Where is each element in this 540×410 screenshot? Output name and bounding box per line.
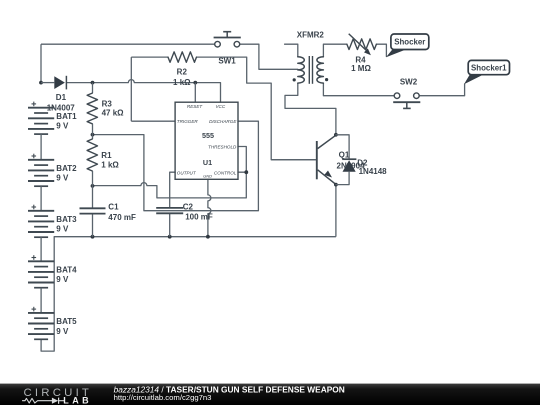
wire: SW2 right to Shocker1 flag	[419, 84, 464, 96]
svg-text:1 kΩ: 1 kΩ	[173, 78, 191, 87]
node C: RESET junction	[193, 81, 197, 85]
svg-text:BAT1: BAT1	[56, 112, 77, 121]
svg-text:555: 555	[202, 131, 214, 140]
capacitor C1	[80, 203, 136, 222]
wire: transformer secondary bottom to SW2	[323, 83, 394, 96]
wire: transformer primary top stub (unconnected)	[285, 44, 298, 57]
wire	[40, 288, 42, 313]
svg-text:XFMR2: XFMR2	[297, 31, 325, 40]
transistor Q1	[271, 135, 365, 184]
svg-text:D1: D1	[56, 93, 67, 102]
svg-text:TRIGGER: TRIGGER	[177, 119, 199, 124]
svg-text:R3: R3	[102, 100, 113, 109]
battery BAT3	[28, 205, 77, 238]
svg-text:100 mF: 100 mF	[185, 212, 213, 221]
svg-text:THRESHOLD: THRESHOLD	[208, 145, 237, 150]
svg-text:RESET: RESET	[187, 104, 204, 109]
svg-text:OUTPUT: OUTPUT	[177, 171, 197, 176]
battery BAT4	[28, 255, 77, 288]
node K: emitter junction	[334, 183, 338, 187]
wire: THRESHOLD loop to CONTROL	[238, 147, 246, 173]
wire: RESET pin stub	[194, 83, 196, 103]
wire: transformer primary bottom to Q1 collector	[285, 83, 336, 135]
wire: R2 right lead to Q1 base	[197, 57, 317, 160]
diode D2	[336, 135, 387, 185]
flag Shocker1	[464, 60, 510, 84]
wire: TRIGGER pin to R2 left	[131, 120, 175, 122]
node A: battery/diode junction	[39, 81, 43, 85]
svg-text:SW1: SW1	[218, 56, 236, 65]
svg-text:R1: R1	[101, 151, 112, 160]
IC U1 555 timer	[175, 102, 238, 179]
wire: battery+ node up to top rail	[40, 44, 42, 82]
wire: GND pin down to ground rail with two hops	[208, 179, 211, 236]
node D: R3/R1 junction	[91, 133, 95, 137]
svg-text:BAT3: BAT3	[56, 215, 77, 224]
svg-text:9 V: 9 V	[56, 174, 69, 183]
svg-text:BAT5: BAT5	[56, 317, 77, 326]
wire: SW1 right to transformer tap	[240, 44, 298, 69]
capacitor C2	[156, 203, 213, 222]
phase dot primary	[293, 78, 296, 81]
battery BAT5	[28, 307, 77, 340]
wire	[40, 134, 42, 160]
svg-text:GND: GND	[203, 173, 212, 178]
node J: collector junction	[334, 133, 338, 137]
svg-text:9 V: 9 V	[56, 327, 69, 336]
node I: GND rail junction	[206, 235, 210, 239]
svg-text:470 mF: 470 mF	[108, 213, 136, 222]
svg-text:C1: C1	[108, 203, 119, 212]
svg-text:Shocker1: Shocker1	[471, 63, 507, 72]
svg-text:BAT2: BAT2	[56, 164, 77, 173]
svg-text:Shocker: Shocker	[394, 38, 425, 47]
svg-text:LAB: LAB	[63, 396, 92, 406]
pushbutton switch SW1	[214, 32, 241, 66]
svg-text:SW2: SW2	[400, 78, 418, 87]
flag Shocker	[386, 34, 429, 57]
node G: C1 ground junction	[91, 235, 95, 239]
resistor R2	[168, 52, 197, 87]
svg-text:R2: R2	[177, 68, 188, 77]
CircuitLab logo	[23, 387, 93, 406]
variable resistor R4	[347, 34, 377, 73]
svg-text:U1: U1	[203, 158, 212, 167]
svg-text:1 kΩ: 1 kΩ	[101, 161, 119, 170]
transformer XFMR2	[293, 31, 329, 84]
svg-text:DISCHARGE: DISCHARGE	[209, 119, 237, 124]
battery BAT2	[28, 154, 77, 187]
resistor R3	[87, 83, 124, 135]
diode D1	[41, 76, 75, 113]
pushbutton switch SW2	[393, 78, 420, 109]
node B: R3 top junction	[91, 81, 95, 85]
wire: main rail D1 to VCC with hop over trigger wire	[66, 80, 220, 103]
wire	[40, 186, 42, 211]
wire: C1 top lead	[92, 186, 94, 209]
wire	[40, 237, 42, 261]
wire: secondary top to R4	[323, 44, 347, 57]
wire: C2 bottom lead	[169, 213, 171, 236]
node E: R1/C1 junction	[91, 184, 95, 188]
wire: R4 right lead to Shocker flag	[376, 44, 386, 56]
wire: OUTPUT pin down to C2	[170, 172, 175, 208]
svg-text:VCC: VCC	[215, 104, 225, 109]
phase dot secondary	[325, 78, 328, 81]
svg-text:9 V: 9 V	[56, 275, 69, 284]
node F: CONTROL/THRESHOLD junction	[244, 170, 248, 174]
wire: ground rail	[54, 236, 336, 238]
svg-text:BAT4: BAT4	[56, 266, 77, 275]
svg-text:9 V: 9 V	[56, 122, 69, 131]
wire: Q1 emitter down to ground rail	[335, 185, 337, 237]
wire: ground rail bypass down to BAT5 negative	[41, 237, 54, 351]
battery BAT1	[28, 102, 77, 135]
core	[308, 56, 310, 84]
node H: C2 ground junction	[168, 235, 172, 239]
svg-text:1 MΩ: 1 MΩ	[351, 64, 371, 73]
svg-text:1N4148: 1N4148	[359, 167, 388, 176]
svg-text:http://circuitlab.com/c2gg7n3: http://circuitlab.com/c2gg7n3	[114, 393, 212, 402]
svg-text:CONTROL: CONTROL	[214, 171, 237, 176]
wire: R1/C1 junction to CONTROL with hop	[93, 172, 247, 198]
resistor R1	[87, 135, 119, 186]
wire: R2 left lead	[131, 56, 168, 58]
svg-text:C2: C2	[183, 203, 194, 212]
wire: C1 bottom lead	[92, 214, 94, 237]
wire: R3 bottom junction to DISCHARGE (passes between C2 plates)	[93, 121, 259, 211]
wire: top rail to SW1	[41, 43, 215, 45]
svg-text:47 kΩ: 47 kΩ	[102, 108, 125, 117]
svg-text:9 V: 9 V	[56, 225, 69, 234]
